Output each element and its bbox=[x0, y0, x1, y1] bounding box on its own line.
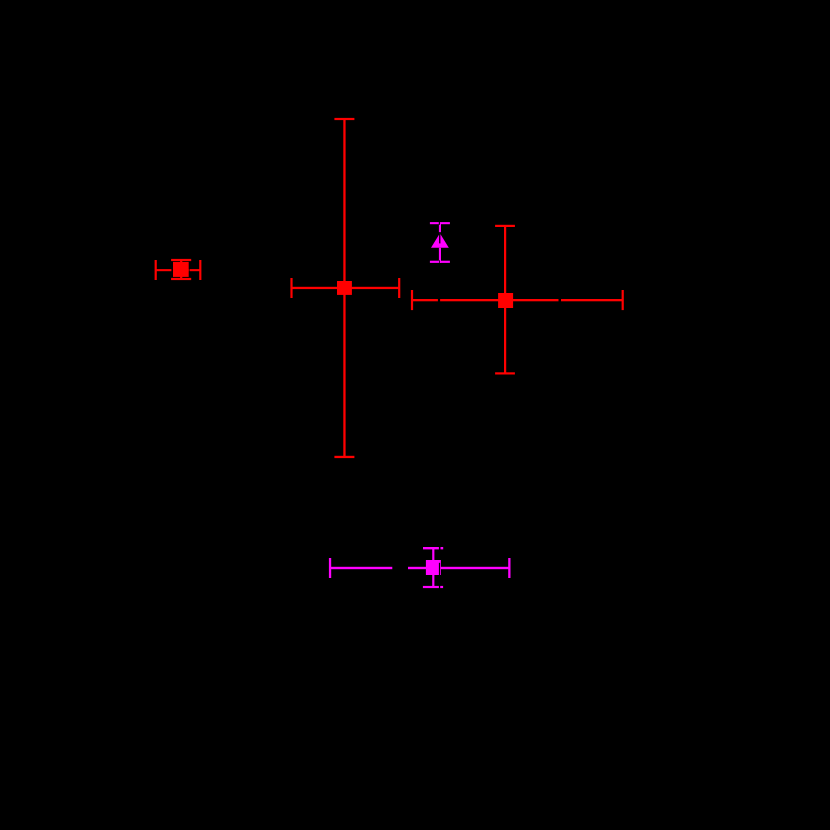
point P2 y-error top cap bbox=[334, 118, 354, 120]
point P2 y-error bar line bbox=[343, 119, 345, 457]
black notch in P4 triangle bbox=[439, 234, 440, 244]
point P5 y-error top cap bbox=[423, 547, 443, 549]
point P4 y-error top cap bbox=[430, 222, 450, 224]
black gap in P4 bottom cap bbox=[438, 260, 441, 263]
point P4 y-error bar line upper segment bbox=[439, 223, 441, 232]
point P5 square marker bbox=[426, 560, 441, 575]
black notch in P5 square marker bbox=[439, 563, 440, 576]
black gap left of P1 marker bbox=[171, 269, 173, 272]
black gap right of P1 marker bbox=[188, 269, 191, 272]
point P3 x-error right cap bbox=[622, 290, 624, 310]
black gap in P5 bottom cap bbox=[439, 585, 440, 588]
point P1 y-error top cap bbox=[171, 259, 191, 261]
point P2 y-error bottom cap bbox=[334, 456, 354, 458]
black gap in P5 x-error line bbox=[392, 566, 408, 570]
point P4 y-error bottom cap bbox=[430, 261, 450, 263]
point P2 square marker bbox=[337, 281, 352, 295]
black gap in P4 top cap bbox=[439, 222, 440, 225]
point P5 x-error bar line bbox=[330, 567, 509, 569]
point P3 x-error bar line bbox=[412, 299, 623, 301]
point P3 square marker bbox=[498, 293, 513, 308]
point P3 x-error left cap bbox=[411, 290, 413, 310]
point P4 y-error bar line lower segment bbox=[439, 248, 441, 263]
point P5 x-error right cap bbox=[508, 558, 510, 578]
point P1 x-error left cap bbox=[155, 260, 157, 280]
black gap 1 in P3 x-error line bbox=[438, 299, 440, 302]
point P1 y-error bar line bbox=[180, 260, 182, 278]
point P2 x-error left cap bbox=[290, 278, 292, 298]
point P2 x-error right cap bbox=[398, 278, 400, 298]
point P3 y-error top cap bbox=[495, 225, 515, 227]
point P5 y-error bottom cap bbox=[423, 586, 443, 588]
point P5 x-error left cap bbox=[329, 558, 331, 578]
black gap in P5 top cap bbox=[439, 546, 441, 550]
point P1 x-error bar line bbox=[155, 269, 200, 271]
point P1 x-error right cap bbox=[199, 260, 201, 280]
point P5 y-error bar line bbox=[432, 548, 434, 587]
point P1 square marker bbox=[173, 262, 189, 277]
black gap 2 in P3 x-error line bbox=[559, 299, 562, 302]
point P4 triangle marker bbox=[431, 233, 449, 247]
point P3 y-error bottom cap bbox=[495, 372, 515, 374]
point P1 y-error bottom cap bbox=[171, 278, 191, 280]
point P2 x-error bar line bbox=[292, 287, 400, 289]
point P3 y-error bar line bbox=[504, 226, 506, 374]
